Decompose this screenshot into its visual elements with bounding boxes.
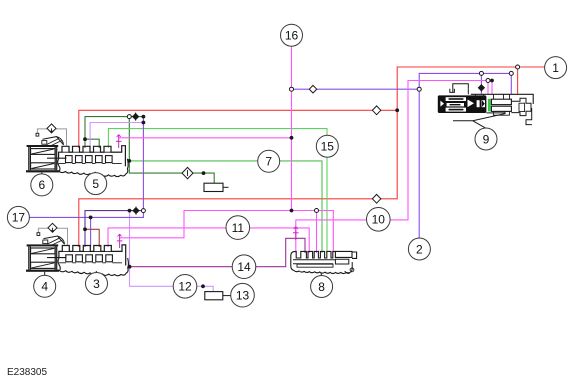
callout 8 <box>311 276 333 298</box>
resistor box near line 7 <box>204 183 229 191</box>
wire dark green vertical to resistor box <box>129 117 214 184</box>
callout 17 <box>7 206 29 228</box>
latch sketch above connector 3 <box>43 236 65 246</box>
inline connector diamond red upper <box>372 106 380 115</box>
inline connector diamond red lower <box>372 194 380 203</box>
svg-text:9: 9 <box>483 132 490 146</box>
junction dot violet lavender tap <box>128 209 132 213</box>
callout 10 <box>367 208 391 232</box>
callout 16 <box>281 24 303 46</box>
callout 3 <box>86 273 108 295</box>
svg-text:4: 4 <box>41 280 48 294</box>
latch sketch above connector 5 <box>42 137 64 147</box>
junction dot lavender purple meet <box>142 121 146 125</box>
wire red branch into component 9 <box>517 67 519 94</box>
svg-text:17: 17 <box>12 211 26 225</box>
wire light green line 15 to connector 8 <box>108 129 327 253</box>
inline ring magenta comp9 pin a <box>486 79 490 83</box>
wire purple upper run into component 9 <box>419 73 511 93</box>
wire purple branch pin component 9 <box>480 73 482 93</box>
svg-text:E238305: E238305 <box>7 367 47 378</box>
junction dot purple 17 branch <box>89 216 93 220</box>
junction dot magenta comp9 pin b <box>490 79 494 83</box>
connector 3 comb body <box>58 245 128 276</box>
wire medium green line 7 to connector 8 <box>129 161 322 253</box>
wire purple line 17 <box>29 117 143 218</box>
callout 15 <box>316 135 338 157</box>
svg-text:10: 10 <box>372 213 386 227</box>
callout 2 <box>408 238 430 260</box>
CALLOUTS <box>7 24 566 307</box>
component 9 assembly <box>438 84 533 125</box>
callout leader circle 3 <box>95 271 97 273</box>
wire magenta pin drops component 9 <box>488 81 492 94</box>
inline diamond arrow green line7 <box>182 167 193 178</box>
inline ring violet purple meet <box>141 209 145 213</box>
junction dot green before box <box>202 171 206 175</box>
service diamond above connector 6 <box>36 124 67 146</box>
wire lavender vertical to circle 12 and box 13 <box>130 211 214 292</box>
inline ring magenta before connector 8 <box>315 209 319 213</box>
inline ring dark green <box>127 115 131 119</box>
svg-text:6: 6 <box>38 178 45 192</box>
connector 5 comb body <box>58 146 128 177</box>
inline ring purple comp9 right pin <box>509 71 513 75</box>
wire dark green from connector 5 <box>85 117 143 148</box>
wire purple vertical to circle 2 <box>418 89 420 238</box>
junction dot magenta 16 end <box>290 209 294 213</box>
wire dark green bridge to second pin <box>85 139 99 148</box>
junction dot lavender line14 tap <box>128 265 132 269</box>
junction dot green purple meet <box>142 115 146 119</box>
twisted marker connector 3 magenta <box>117 234 123 248</box>
callout 14 <box>232 255 256 279</box>
wire purple branch to connector 3 <box>90 217 92 247</box>
svg-text:14: 14 <box>237 260 251 274</box>
wire maroon bridge connector 3 <box>85 229 99 247</box>
svg-text:15: 15 <box>321 140 335 154</box>
connector 6 cylindrical shell <box>26 145 67 172</box>
wire magenta from circle 16 <box>291 46 293 211</box>
svg-text:3: 3 <box>93 277 100 291</box>
callout 9 <box>475 128 497 150</box>
twisted marker connector 8 magenta <box>293 227 299 241</box>
svg-text:7: 7 <box>265 155 272 169</box>
inline diamond arrow dark green <box>133 113 139 121</box>
connector 8 body <box>291 251 357 273</box>
svg-text:12: 12 <box>178 280 192 294</box>
junction dot magenta 16 at 137 <box>290 136 294 140</box>
junction dot dark violet maroon tap <box>83 227 87 231</box>
callout leader circle 6 <box>41 172 43 174</box>
wire magenta from connector 5 plus marker <box>119 137 292 139</box>
callout leader circle 8 <box>320 273 323 276</box>
callout 12 <box>173 275 197 299</box>
junction dot dark green pin bridge <box>83 137 87 141</box>
callout 7 <box>258 150 280 172</box>
callout 1 <box>545 57 567 79</box>
wire magenta circle 10 run to component 9 <box>296 81 492 254</box>
svg-text:16: 16 <box>285 29 299 43</box>
svg-text:5: 5 <box>92 177 99 191</box>
callout leader circle 9 <box>473 121 486 128</box>
inline connector ring red circle1 branch <box>516 65 520 69</box>
svg-text:11: 11 <box>232 221 245 235</box>
wire dark violet from connector 3 <box>85 211 143 247</box>
service diamond above connector 4 <box>37 223 68 245</box>
wire magenta line 11 <box>108 228 309 253</box>
callout 13 <box>231 283 255 307</box>
svg-text:2: 2 <box>416 242 423 256</box>
junction dot red splice <box>395 108 399 112</box>
svg-text:8: 8 <box>318 280 325 294</box>
inline diamond arrow dark violet <box>133 207 139 215</box>
wire purple from 16 splice to circle 2 junction <box>292 88 420 90</box>
junction dot green line7 tap <box>127 159 131 163</box>
callout 5 <box>85 173 107 195</box>
wire violet line 14 <box>130 238 306 266</box>
junction dot lavender after circle 12 <box>201 284 205 288</box>
wire red from connector 3 pin to circle 1 <box>79 67 545 247</box>
wire lavender from connector 5 <box>90 123 143 149</box>
svg-text:1: 1 <box>552 61 559 75</box>
callout leader circle 5 <box>94 172 97 173</box>
inline ring purple at 16 line <box>290 87 294 91</box>
resistor box 13 <box>205 292 232 300</box>
inline ring purple comp9 left pin <box>479 71 483 75</box>
wire magenta connector 3 to connector 8 <box>120 211 334 254</box>
callout 4 <box>34 275 56 297</box>
twisted marker connector 5 magenta <box>116 135 122 149</box>
connector 4 cylindrical shell <box>26 244 67 271</box>
inline diamond arrow purple comp9 <box>478 84 484 91</box>
inline ring purple at circle2 tee <box>417 87 421 91</box>
inline diamond purple 89 line <box>309 85 316 93</box>
callout leader circle 4 <box>44 272 46 276</box>
svg-text:13: 13 <box>236 289 250 303</box>
wire magenta branch splice to connector 8 <box>316 211 318 254</box>
callout 11 <box>226 216 250 240</box>
MARKERS <box>83 65 519 288</box>
callout 6 <box>31 174 53 196</box>
wire red from connector 5 pin to splice <box>79 110 397 148</box>
